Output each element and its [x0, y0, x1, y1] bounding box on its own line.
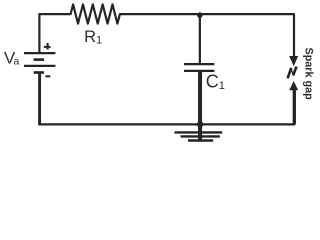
- svg-text:1: 1: [219, 80, 225, 92]
- svg-text:1: 1: [96, 35, 102, 47]
- svg-text:Spark gap: Spark gap: [303, 47, 315, 100]
- svg-text:a: a: [14, 56, 20, 68]
- svg-text:R: R: [84, 28, 96, 46]
- svg-text:C: C: [206, 72, 219, 92]
